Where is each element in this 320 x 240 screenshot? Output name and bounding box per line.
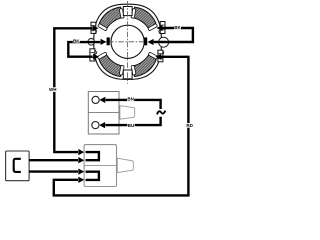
svg-text:RD: RD [186,123,193,128]
svg-text:BN: BN [127,97,134,102]
svg-text:BK: BK [174,25,181,30]
svg-text:WH: WH [49,87,57,92]
svg-text:BK: BK [73,39,80,44]
svg-text:BU: BU [128,123,135,128]
